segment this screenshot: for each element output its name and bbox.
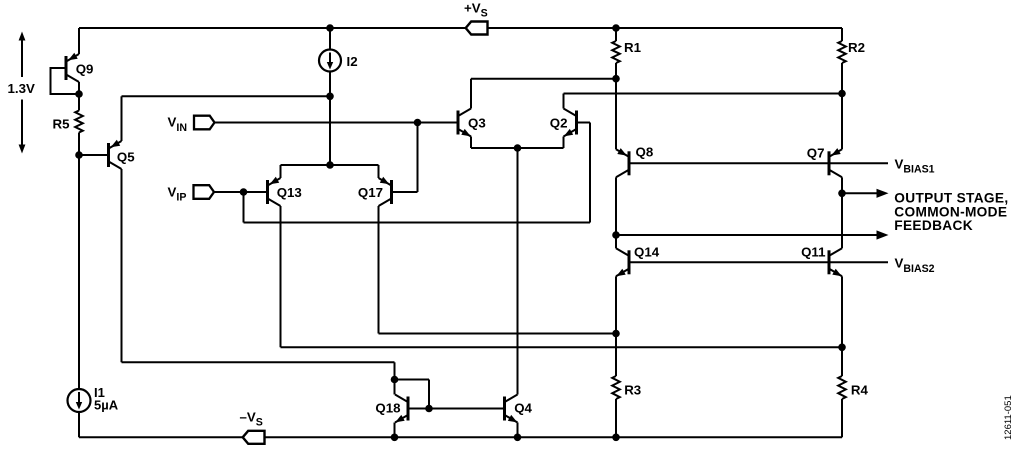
wire Q17 base drop vertical	[417, 123, 419, 193]
node Q18 base junction	[425, 405, 433, 413]
wire left chain to I1	[78, 155, 80, 390]
wire Q8 emitter vertical	[615, 79, 617, 150]
svg-text:Q2: Q2	[550, 115, 568, 130]
wire I2 top lead	[329, 28, 331, 50]
transistor Q2	[575, 111, 578, 135]
node I2 / Q5 emitter junction	[326, 93, 334, 101]
wire Q18 base loop (top)	[395, 379, 430, 381]
wire R4 bottom lead	[841, 399, 843, 437]
output arrow from Q8/Q14 node	[616, 234, 880, 236]
transistor Q13	[266, 180, 269, 204]
wire Q5 collector drop to Q18	[394, 362, 396, 379]
svg-text:FEEDBACK: FEEDBACK	[894, 218, 973, 233]
svg-text:Q5: Q5	[117, 150, 135, 165]
svg-text:Q18: Q18	[375, 400, 400, 415]
wire diff pair emitter rail	[281, 164, 379, 166]
svg-text:R1: R1	[624, 40, 642, 55]
transistor Q14	[628, 250, 631, 274]
wire Q3 collector rail to R1 node	[471, 78, 616, 80]
wire emitter node to Q4 collector	[517, 148, 519, 395]
wire VIP to Q13 base	[214, 191, 266, 193]
node top rail / R1	[612, 24, 620, 32]
wire Q18 base loop (down)	[428, 380, 430, 409]
transistor Q18	[407, 397, 410, 421]
transistor Q11	[828, 250, 831, 274]
wire R5 bottom lead	[78, 133, 80, 156]
wire R4 top lead	[841, 347, 843, 376]
svg-text:R4: R4	[851, 382, 869, 397]
wire shared emitter rail Q3-Q2	[471, 147, 564, 149]
wire Q7 collector stub down	[841, 177, 843, 193]
svg-text:Q13: Q13	[277, 185, 302, 200]
node Q14 emitter / Q17 collector	[612, 330, 620, 338]
svg-text:R5: R5	[53, 116, 71, 131]
svg-text:12611-051: 12611-051	[1003, 395, 1014, 440]
wire Q11 emitter stub down	[841, 276, 843, 347]
wire Q18-Q4 base rail	[410, 408, 504, 410]
wire Q5 base	[79, 154, 108, 156]
node Q18 collector junction	[391, 376, 399, 384]
transistor Q8	[628, 151, 631, 175]
wire Q2 base vertical	[589, 123, 591, 223]
+VS supply flag	[466, 22, 488, 35]
wire Q13 collector to R4 node	[281, 346, 843, 348]
wire R2 top lead	[841, 28, 843, 41]
svg-text:Q17: Q17	[358, 185, 383, 200]
node Q11 emitter / Q13 collector	[838, 344, 846, 352]
wire R5 top lead	[78, 94, 80, 111]
node R1 / Q3 collector / Q8 emitter	[612, 75, 620, 83]
wire Q5 collector down	[121, 169, 123, 362]
wire Q4 emitter stub down	[517, 423, 519, 438]
svg-text:Q4: Q4	[514, 400, 532, 415]
svg-text:5µA: 5µA	[94, 397, 119, 412]
wire Q14 emitter stub down	[615, 276, 617, 333]
svg-text:OUTPUT STAGE,: OUTPUT STAGE,	[894, 190, 1008, 205]
svg-text:Q3: Q3	[468, 115, 486, 130]
wire bottom -VS rail (right segment)	[265, 436, 843, 438]
transistor Q9	[65, 56, 68, 80]
svg-text:1.3V: 1.3V	[8, 81, 35, 96]
wire Q2 collector rail to R2 node	[564, 93, 843, 95]
node R5 / Q5 base	[75, 151, 83, 159]
wire Q3 collector stub up	[470, 79, 472, 109]
node VIN / Q17 base drop	[414, 119, 422, 127]
wire Q8 collector stub down	[615, 177, 617, 235]
wire Q17 emitter stub	[378, 165, 380, 178]
input flag VIP	[194, 185, 215, 199]
wire Q2 emitter stub	[563, 137, 565, 149]
transistor Q17	[390, 180, 393, 204]
1.3V annotation arrow	[21, 38, 23, 77]
node Q7/Q11 collector junction	[838, 190, 846, 198]
wire Q17 collector down	[378, 206, 380, 334]
transistor Q7	[828, 151, 831, 175]
wire Q2 base horizontal	[578, 122, 590, 124]
wire Q9 base-collector loop	[51, 68, 80, 94]
wire top +VS supply rail (left segment)	[79, 27, 466, 29]
wire VIP drop to Q2 base (across)	[244, 222, 591, 224]
wire Q17 base horizontal	[393, 191, 418, 193]
wire Q7 emitter vertical	[841, 94, 843, 150]
wire Q17 collector to R3 node	[379, 333, 617, 335]
current source I1	[68, 389, 91, 412]
wire Q5 emitter to I2 node	[122, 95, 331, 97]
svg-text:R2: R2	[848, 40, 865, 55]
wire Q9 collector stub	[78, 82, 80, 94]
node Q8/Q14 collector junction	[612, 231, 620, 239]
wire R2 bottom lead	[841, 63, 843, 94]
svg-text:R3: R3	[624, 382, 641, 397]
wire Q3 emitter stub	[470, 137, 472, 149]
wire Q13 collector down	[280, 206, 282, 347]
resistor R2	[838, 41, 846, 63]
resistor R3	[612, 376, 620, 399]
transistor Q5	[107, 143, 110, 167]
wire top +VS supply rail (right segment)	[488, 27, 843, 29]
node VIP junction	[240, 188, 248, 196]
svg-text:Q8: Q8	[636, 145, 654, 160]
wire I1 bottom lead	[78, 412, 80, 437]
transistor Q3	[457, 111, 460, 135]
svg-text:Q9: Q9	[76, 62, 94, 77]
current source I2	[319, 50, 341, 72]
svg-text:Q7: Q7	[807, 146, 825, 161]
wire Q18 collector stub	[394, 380, 396, 395]
wire VBIAS2 rail	[631, 261, 889, 263]
wire R1 bottom lead	[615, 63, 617, 79]
node Q4 emitter / bottom rail	[514, 434, 522, 442]
svg-text:Q14: Q14	[634, 245, 660, 260]
wire I2 bottom lead	[329, 72, 331, 166]
wire Q9 emitter stub	[78, 28, 80, 54]
node tail current junction	[326, 161, 334, 169]
wire VIP drop to Q2 base (down)	[243, 192, 245, 223]
wire R1 top lead	[615, 28, 617, 41]
node Q18 emitter / bottom rail	[391, 434, 399, 442]
wire bottom -VS rail (left segment)	[79, 436, 243, 438]
wire R3 bottom lead	[615, 399, 617, 437]
node R3 / bottom rail	[612, 434, 620, 442]
wire R3 top lead	[615, 334, 617, 377]
-VS supply flag	[243, 431, 265, 444]
wire Q13 emitter stub	[280, 165, 282, 178]
wire Q18 emitter stub down	[394, 423, 396, 438]
wire Q5 emitter stub up	[121, 96, 123, 141]
transistor Q4	[503, 397, 506, 421]
resistor R4	[838, 376, 846, 399]
svg-text:Q11: Q11	[801, 245, 826, 260]
node R2 / Q2 collector / Q7 emitter	[838, 90, 846, 98]
node top rail / I2	[326, 24, 334, 32]
wire Q11 collector stub up	[841, 193, 843, 248]
wire Q2 collector stub up	[563, 94, 565, 109]
wire VBIAS1 rail	[631, 162, 889, 164]
svg-text:I2: I2	[347, 54, 358, 69]
input flag VIN	[194, 116, 215, 130]
node Q9 collector / R5 top	[75, 90, 83, 98]
node Q3/Q2 emitter junction	[514, 144, 522, 152]
resistor R1	[612, 41, 620, 63]
wire Q5 collector across	[122, 361, 395, 363]
wire VIN to Q3 base	[215, 122, 457, 124]
output arrow from Q7/Q11 node	[842, 192, 880, 194]
wire Q14 collector stub	[615, 235, 617, 248]
resistor R5	[75, 111, 83, 133]
